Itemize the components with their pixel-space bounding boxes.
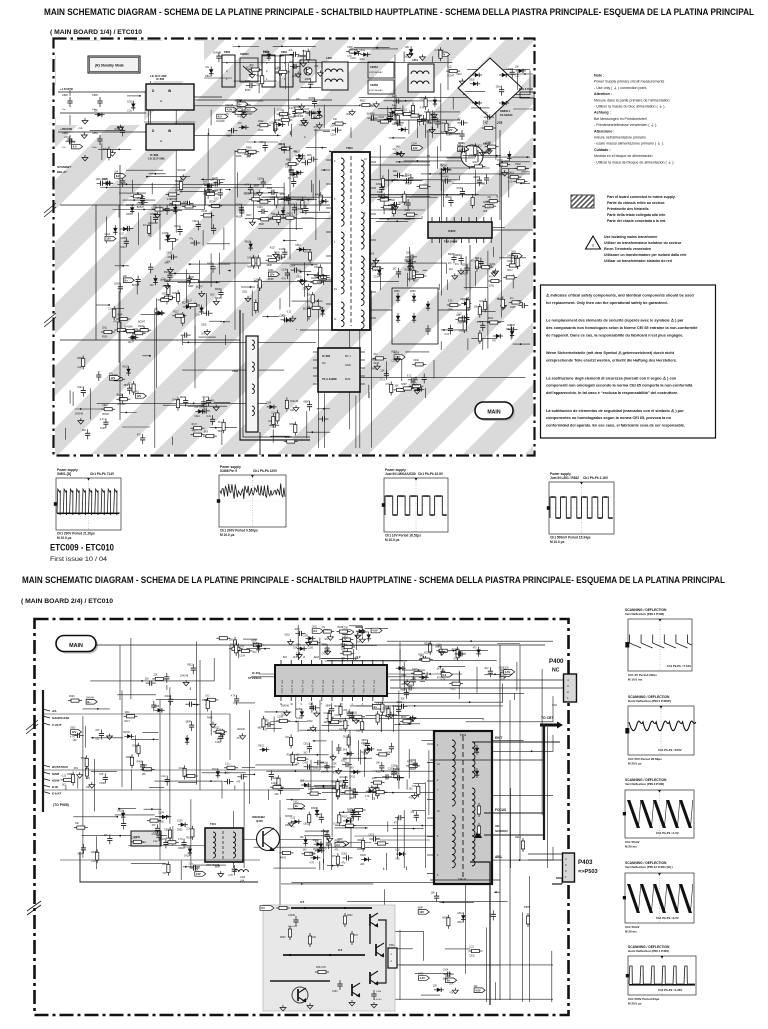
junction	[307, 274, 309, 276]
svg-text:M 10.0 μs: M 10.0 μs	[385, 538, 400, 542]
ground	[502, 672, 508, 678]
junction	[399, 161, 401, 163]
svg-text:680P: 680P	[289, 424, 295, 426]
svg-text:R405: R405	[238, 117, 244, 119]
ground	[336, 768, 342, 774]
label	[175, 190, 180, 192]
diode	[209, 67, 213, 77]
svg-text:misure nell’alimentatore prima: misure nell’alimentatore primario	[594, 136, 646, 140]
schematic board 1 outline	[54, 39, 535, 456]
diode	[95, 113, 105, 117]
svg-text:1K2: 1K2	[150, 285, 155, 287]
svg-text:C330: C330	[274, 120, 280, 122]
label	[332, 856, 337, 858]
junction	[277, 135, 279, 137]
label	[203, 397, 209, 399]
svg-text:100n: 100n	[372, 778, 378, 780]
svg-text:R812: R812	[286, 160, 292, 162]
junction	[405, 100, 407, 102]
wire	[90, 129, 122, 131]
svg-text:C104: C104	[462, 299, 468, 301]
capacitor C805	[92, 94, 103, 111]
svg-text:de l’appareil. Dans ce cas, la: de l’appareil. Dans ce cas, la responsab…	[546, 333, 683, 337]
label	[78, 128, 83, 130]
resistor	[177, 290, 180, 304]
label	[497, 160, 503, 162]
label	[275, 69, 281, 71]
resistor	[123, 329, 137, 332]
ground	[290, 316, 296, 322]
svg-text:C415: C415	[418, 974, 424, 976]
label	[369, 835, 375, 837]
horizontal output transistor Q405	[252, 815, 280, 851]
resistor	[447, 303, 461, 306]
wire	[379, 218, 414, 220]
capacitor	[448, 325, 453, 335]
svg-text:4.7K: 4.7K	[296, 200, 301, 202]
label	[365, 796, 370, 798]
label	[128, 384, 133, 386]
svg-text:La sostituzione degli elementi: La sostituzione degli elementi di sicure…	[546, 375, 677, 380]
svg-text:KBW: KBW	[52, 779, 60, 783]
resistor	[351, 715, 365, 718]
svg-text:680P: 680P	[473, 177, 479, 179]
svg-text:10K: 10K	[293, 648, 298, 650]
diode	[295, 154, 305, 158]
svg-text:680P: 680P	[314, 276, 320, 278]
svg-text:0.22: 0.22	[481, 184, 486, 186]
svg-text:1K2: 1K2	[252, 652, 257, 654]
wire	[159, 205, 161, 250]
label	[215, 742, 221, 744]
ground	[410, 715, 416, 721]
svg-text:SANDCASE: SANDCASE	[52, 716, 70, 720]
label	[303, 752, 308, 754]
wire	[355, 658, 357, 660]
svg-text:8.2: 8.2	[116, 174, 120, 178]
label	[308, 789, 314, 791]
svg-text:1N4148: 1N4148	[75, 414, 84, 416]
svg-text:C330: C330	[397, 702, 403, 704]
label	[238, 117, 244, 119]
net tag	[511, 254, 522, 259]
capacitor	[74, 733, 84, 738]
junction	[526, 156, 528, 158]
junction	[323, 169, 325, 171]
svg-text:C104: C104	[293, 177, 299, 179]
ground	[502, 170, 508, 176]
ground	[355, 633, 361, 639]
label	[177, 315, 186, 317]
label	[293, 648, 298, 650]
label	[303, 289, 309, 291]
label	[343, 758, 348, 760]
svg-text:Einen Trenntrafo verwenden: Einen Trenntrafo verwenden	[604, 247, 651, 251]
resistor	[509, 301, 523, 304]
svg-text:2.2u: 2.2u	[487, 206, 492, 208]
capacitor	[305, 111, 315, 116]
label	[299, 116, 304, 118]
MAIN oval tag board1	[475, 402, 515, 421]
junction	[364, 757, 366, 759]
capacitor	[396, 268, 401, 278]
svg-text:D302: D302	[459, 331, 465, 333]
svg-text:4.7K: 4.7K	[228, 875, 233, 877]
label	[227, 135, 233, 137]
label	[70, 728, 76, 730]
resistor	[61, 778, 75, 781]
label	[162, 286, 167, 288]
svg-text:2.2u: 2.2u	[127, 110, 132, 112]
svg-text:3K9: 3K9	[483, 211, 488, 213]
capacitor	[488, 667, 493, 677]
svg-text:Note :: Note :	[594, 74, 604, 78]
label	[483, 153, 489, 155]
label	[210, 295, 215, 297]
svg-text:C612: C612	[102, 405, 108, 407]
wire	[206, 293, 208, 314]
wire	[148, 88, 150, 133]
resistor	[347, 734, 350, 748]
label	[371, 359, 377, 361]
ground	[491, 270, 497, 276]
ground	[407, 52, 413, 58]
wire	[75, 408, 110, 410]
svg-text:680P: 680P	[186, 722, 192, 724]
wire	[183, 866, 200, 868]
label	[391, 775, 396, 777]
wire	[366, 799, 368, 802]
wire	[307, 289, 309, 321]
mains part hatched swatch	[558, 192, 611, 210]
connector P800	[262, 50, 275, 87]
wire	[475, 170, 477, 196]
svg-text:6.3: 6.3	[73, 145, 77, 149]
wire	[467, 338, 469, 350]
svg-text:Primärseite des Netzteils.: Primärseite des Netzteils.	[607, 207, 649, 211]
svg-text:Attenzione :: Attenzione :	[594, 129, 615, 133]
wire	[118, 808, 135, 810]
svg-text:3K9: 3K9	[299, 116, 304, 118]
ground	[154, 212, 160, 218]
wire	[516, 662, 518, 691]
ground	[412, 793, 418, 799]
capacitor	[185, 702, 195, 707]
net tag	[71, 730, 82, 735]
svg-text:R405: R405	[207, 717, 213, 719]
label	[117, 395, 123, 397]
wire	[300, 211, 330, 213]
resistor	[111, 378, 125, 381]
wire	[412, 810, 425, 812]
svg-text:C612: C612	[194, 416, 200, 418]
resistor	[278, 118, 292, 121]
resistor	[513, 180, 527, 183]
ground	[299, 279, 305, 285]
wire	[327, 710, 329, 732]
svg-text:470P/400VAC: 470P/400VAC	[369, 89, 383, 92]
wire	[329, 150, 331, 152]
label	[164, 281, 170, 283]
ground	[439, 649, 445, 655]
svg-text:- Primärnetzteilmasse verwende: - Primärnetzteilmasse verwenden ( ⏚ ).	[594, 122, 657, 127]
junction	[446, 194, 448, 196]
capacitor	[157, 831, 162, 841]
capacitor	[281, 196, 291, 201]
junction	[267, 316, 269, 318]
svg-text:C612: C612	[450, 688, 456, 690]
resistor	[463, 319, 466, 333]
capacitor	[210, 415, 215, 425]
svg-text:T441: T441	[460, 733, 466, 737]
svg-text:1K2: 1K2	[449, 269, 454, 271]
svg-text:R405: R405	[371, 368, 377, 370]
capacitor	[394, 173, 404, 178]
svg-text:C415: C415	[510, 307, 516, 309]
diode	[356, 629, 366, 633]
label	[350, 777, 356, 779]
wire	[131, 180, 133, 193]
resistor	[182, 205, 196, 208]
junction	[311, 264, 313, 266]
svg-text:C612: C612	[299, 125, 305, 127]
svg-text:R209: R209	[407, 685, 413, 687]
wire	[83, 708, 110, 710]
label	[483, 124, 488, 126]
wire	[310, 760, 312, 792]
wire	[406, 273, 408, 287]
label	[317, 275, 323, 277]
capacitor	[338, 784, 348, 789]
label	[289, 424, 295, 426]
label	[366, 114, 375, 116]
wire	[280, 199, 317, 201]
svg-text:100n: 100n	[488, 266, 494, 268]
svg-text:( MAIN BOARD 1/4) / ETC010: ( MAIN BOARD 1/4) / ETC010	[50, 29, 142, 36]
label	[507, 325, 516, 327]
wire	[205, 190, 218, 192]
label	[294, 629, 300, 631]
wire	[427, 130, 429, 222]
label	[214, 199, 219, 201]
svg-text:La subtitución de elementos de: La subtitución de elementos de seguridad…	[546, 408, 684, 413]
label	[314, 267, 320, 269]
svg-text:C330: C330	[303, 635, 309, 637]
label	[125, 712, 131, 714]
diode	[433, 97, 437, 107]
label	[305, 79, 311, 81]
label	[391, 352, 397, 354]
svg-text:Vert Deflection (PIN 3 P400): Vert Deflection (PIN 3 P400)	[625, 782, 664, 786]
wire	[449, 167, 490, 169]
junction	[188, 342, 190, 344]
wire	[370, 309, 392, 311]
wire	[243, 638, 257, 640]
svg-text:Vcc P out: Vcc P out	[321, 680, 325, 693]
svg-text:22K: 22K	[278, 144, 283, 146]
capacitor	[456, 651, 466, 656]
wire	[291, 264, 318, 266]
photocoupler IC801	[458, 142, 483, 167]
svg-text:Ch1 Pk-Pk 32.8V: Ch1 Pk-Pk 32.8V	[418, 472, 444, 476]
wire	[221, 321, 231, 323]
wire	[447, 55, 449, 90]
svg-text:Ch1 Pk-Pk 714V: Ch1 Pk-Pk 714V	[90, 472, 115, 476]
capacitor	[190, 865, 200, 870]
wire	[263, 316, 280, 318]
label	[86, 697, 95, 699]
junction	[223, 321, 225, 323]
label	[457, 314, 462, 316]
svg-text:R405: R405	[405, 184, 411, 186]
svg-text:C104: C104	[331, 135, 337, 137]
label	[347, 56, 352, 58]
label	[280, 315, 286, 317]
label	[278, 110, 283, 112]
label	[469, 146, 474, 148]
wire	[142, 731, 158, 733]
capacitor	[448, 197, 453, 207]
wire	[307, 274, 324, 276]
label	[267, 265, 273, 267]
svg-text:R209: R209	[292, 76, 298, 78]
label	[278, 144, 283, 146]
capacitor	[238, 109, 248, 114]
svg-text:0.22: 0.22	[508, 182, 513, 184]
isolating transformer warning triangle	[586, 236, 601, 249]
label	[373, 267, 378, 269]
diode	[126, 366, 130, 376]
wire	[349, 377, 525, 379]
svg-text:C612: C612	[405, 219, 411, 221]
svg-text:C612: C612	[343, 737, 349, 739]
label	[500, 679, 505, 681]
resistor	[336, 785, 339, 799]
capacitor	[408, 174, 413, 184]
capacitor	[422, 374, 427, 384]
junction	[202, 179, 204, 181]
resistor	[172, 314, 186, 317]
label	[508, 182, 513, 184]
wire	[283, 182, 285, 210]
wire	[223, 62, 453, 64]
svg-text:C330: C330	[409, 760, 415, 762]
svg-text:R330: R330	[300, 158, 306, 160]
svg-text:680P: 680P	[442, 917, 448, 919]
ground	[296, 156, 302, 162]
svg-text:M 10.0 μs: M 10.0 μs	[220, 533, 235, 537]
svg-text:R209: R209	[236, 156, 242, 158]
svg-text:R117: R117	[214, 727, 220, 729]
capacitor	[224, 779, 234, 784]
wire	[315, 729, 317, 732]
label	[503, 161, 509, 163]
junction	[210, 780, 212, 782]
svg-text:1N4148: 1N4148	[293, 107, 302, 109]
resistor	[101, 330, 115, 333]
wire	[406, 780, 408, 790]
label	[428, 123, 434, 125]
svg-text:IC 301: IC 301	[252, 671, 261, 675]
label	[282, 316, 287, 318]
wire	[321, 169, 330, 171]
label	[247, 258, 253, 260]
junction	[495, 891, 497, 893]
wire	[452, 183, 484, 185]
label	[186, 829, 191, 831]
svg-text:Ch1 2V Period 20ms: Ch1 2V Period 20ms	[628, 673, 657, 677]
label	[270, 197, 275, 199]
ground	[210, 722, 216, 728]
resistor	[316, 276, 330, 279]
wire	[195, 99, 332, 101]
label	[296, 653, 301, 655]
label	[137, 435, 142, 437]
label	[170, 199, 178, 201]
connector P802	[280, 50, 293, 87]
label	[132, 285, 140, 287]
wire	[154, 310, 156, 448]
resistor	[474, 143, 477, 157]
svg-text:1K2: 1K2	[441, 123, 446, 125]
label	[207, 717, 213, 719]
svg-text:680P: 680P	[448, 254, 454, 256]
capacitor	[350, 712, 355, 722]
schematic board 2 outline	[35, 619, 569, 1015]
capacitor	[261, 178, 266, 188]
label	[126, 205, 135, 207]
label	[309, 704, 314, 706]
ground	[288, 639, 294, 645]
label	[182, 303, 190, 305]
svg-text:Horiz Deflection (PIN 1 P400): Horiz Deflection (PIN 1 P400)	[628, 949, 669, 953]
capacitor	[282, 143, 287, 153]
label	[99, 783, 105, 785]
svg-text:R812: R812	[401, 675, 407, 677]
diode	[364, 747, 374, 751]
label	[238, 123, 243, 125]
ground	[364, 748, 370, 754]
label	[249, 65, 254, 67]
svg-text:10K: 10K	[449, 983, 454, 985]
label	[109, 373, 114, 375]
resistor	[184, 774, 198, 777]
label	[196, 314, 201, 316]
label	[390, 209, 396, 211]
svg-text:1K2: 1K2	[303, 752, 308, 754]
svg-text:0.22: 0.22	[287, 311, 292, 313]
wire	[421, 994, 440, 996]
svg-text:1N4148: 1N4148	[150, 223, 159, 225]
ground	[293, 405, 299, 411]
wire	[495, 70, 497, 159]
label	[296, 209, 302, 211]
capacitor	[211, 224, 216, 234]
svg-text:0.22: 0.22	[469, 947, 474, 949]
oscillogram frame	[547, 482, 614, 534]
label	[402, 176, 410, 178]
label	[337, 627, 343, 629]
wire	[465, 876, 467, 974]
svg-text:Q405: Q405	[256, 819, 263, 823]
svg-text:C415: C415	[279, 249, 285, 251]
ground	[284, 710, 290, 716]
resistor	[180, 179, 183, 193]
resistor	[400, 387, 414, 390]
label	[273, 778, 279, 780]
wire	[383, 180, 422, 182]
resistor	[284, 440, 298, 443]
